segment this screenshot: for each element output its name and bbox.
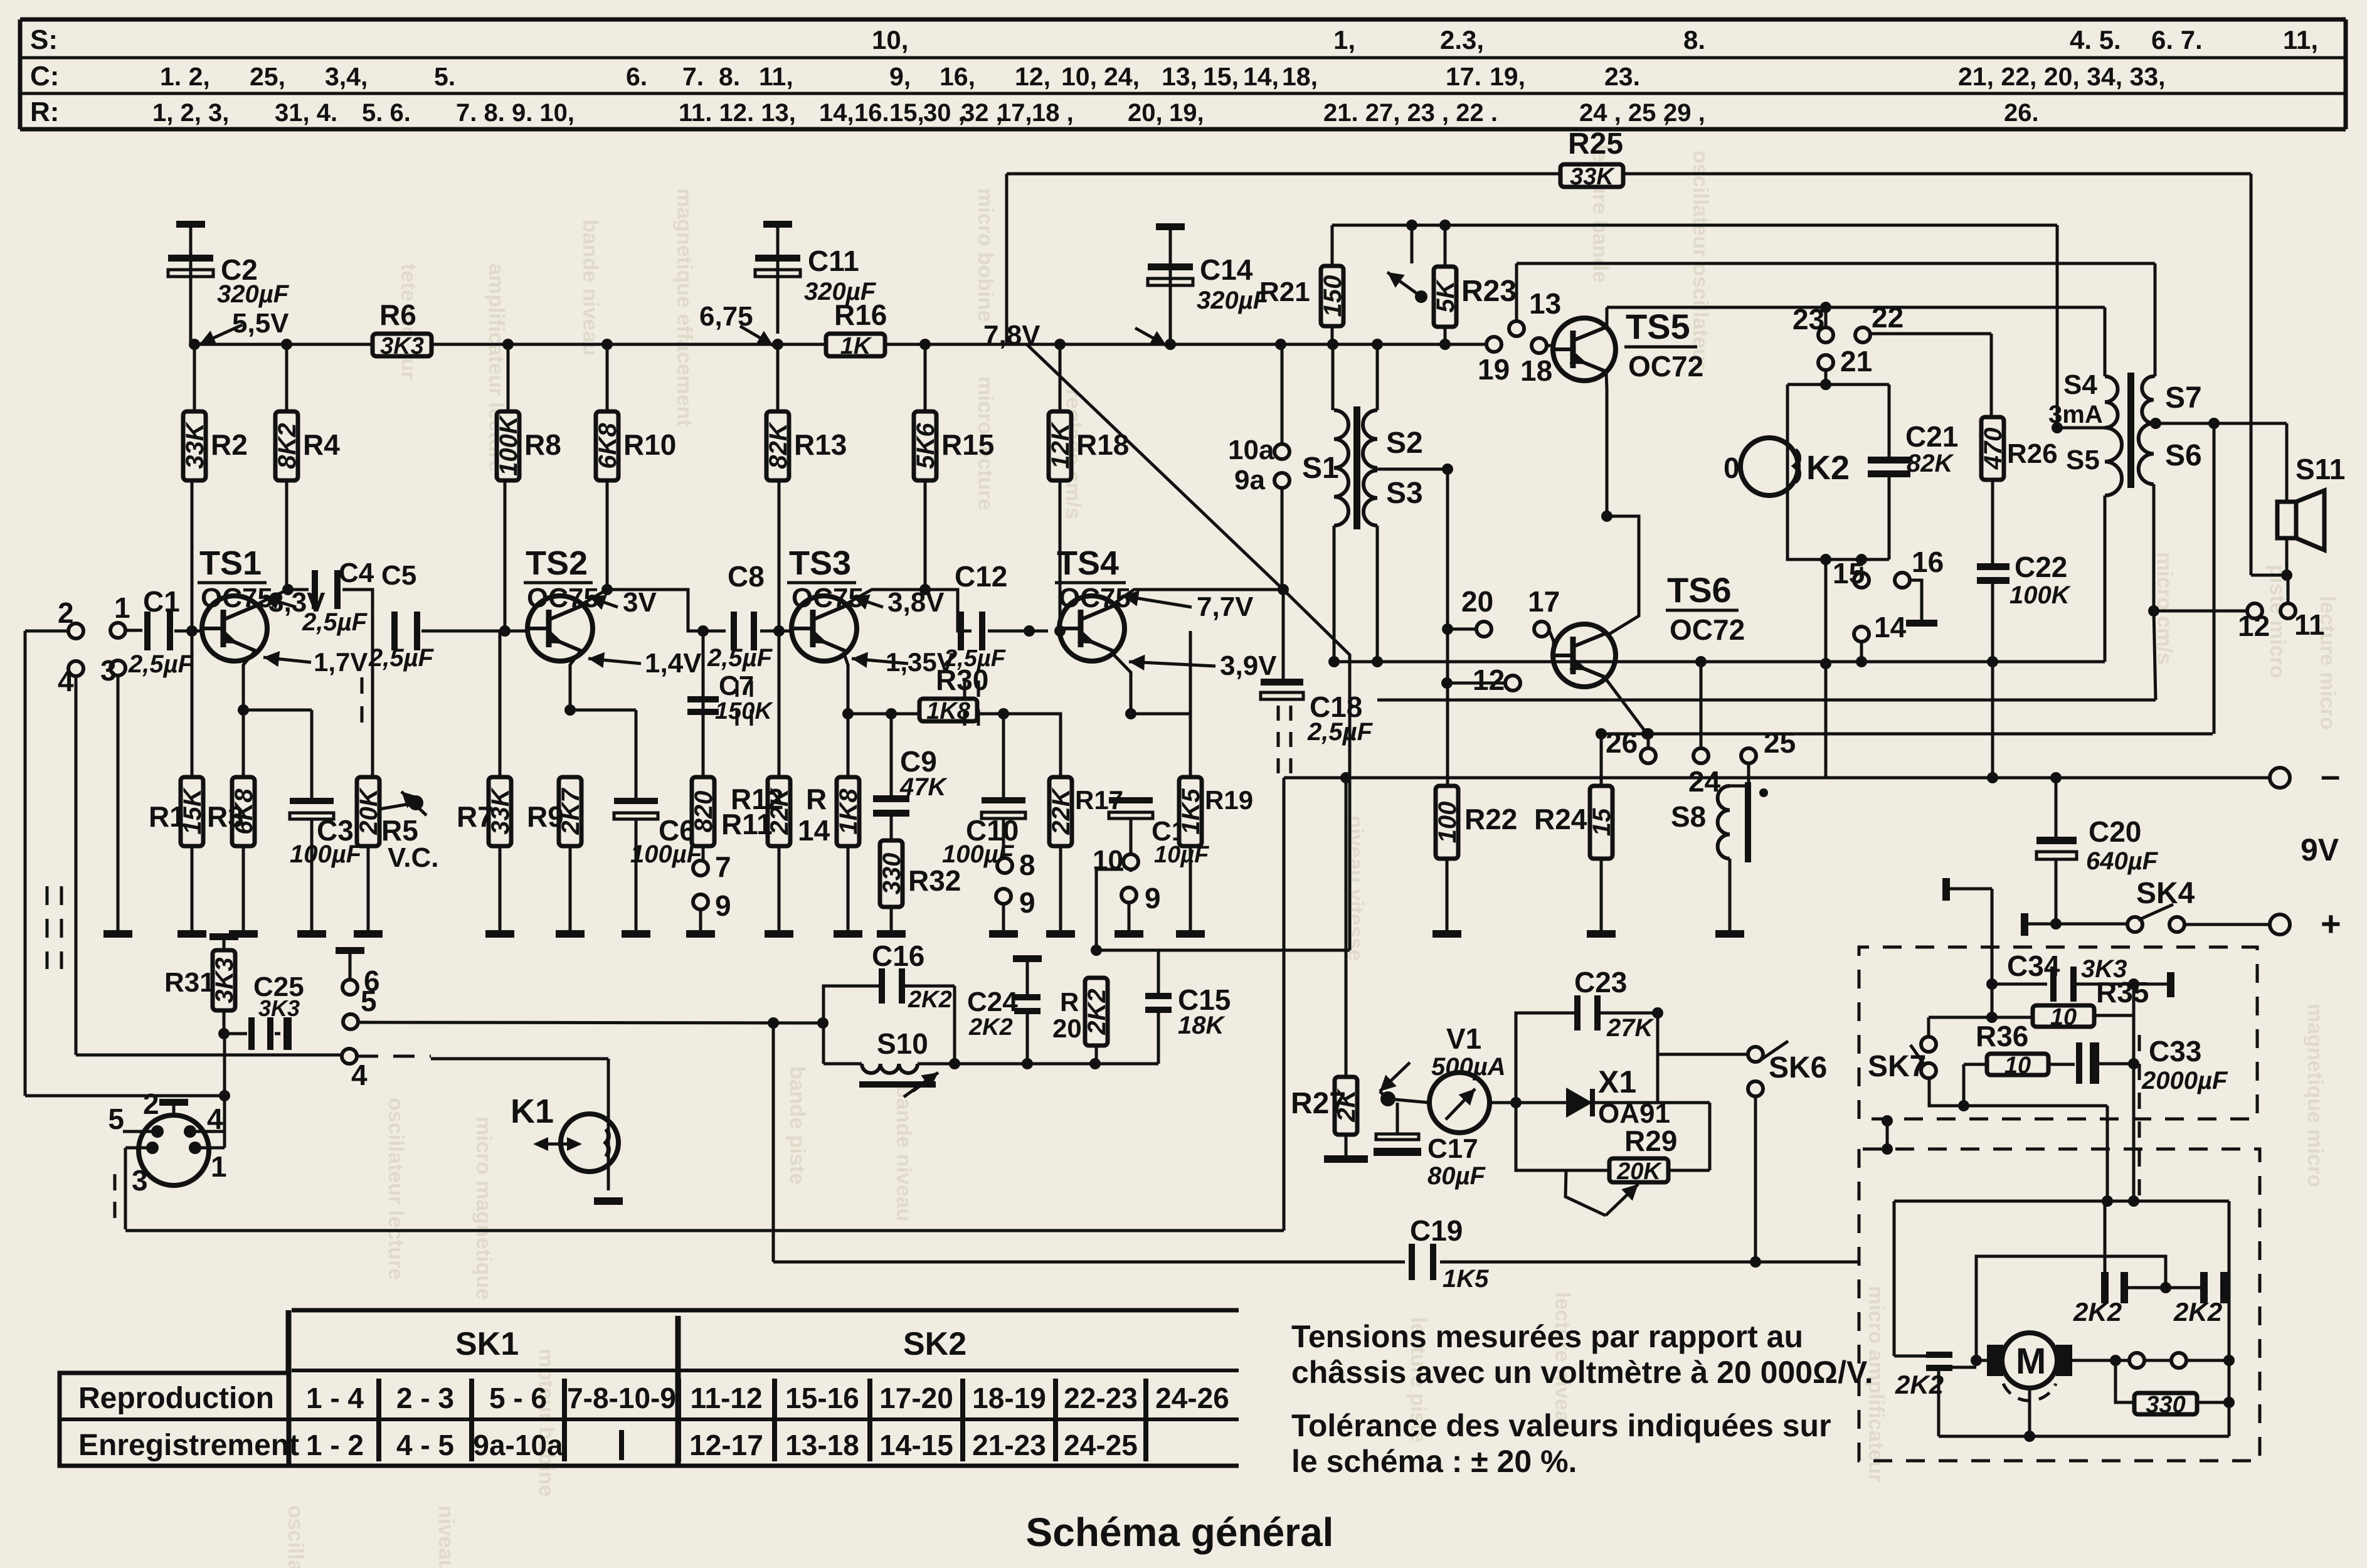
wire TS3 emitter [842, 652, 854, 719]
wire C34 bus down [0, 0, 1, 1]
svg-text:15: 15 [1588, 808, 1616, 836]
svg-text:V.C.: V.C. [388, 842, 439, 873]
wire TS5 emitter [1601, 373, 1612, 522]
svg-text:R19: R19 [1205, 785, 1253, 815]
svg-text:640µF: 640µF [2086, 847, 2159, 875]
capacitor 2K2 left of motor [1894, 1352, 1976, 1436]
svg-text:C34: C34 [2007, 950, 2060, 982]
wire rail to R6 [432, 343, 826, 346]
transistor TS5 [1553, 307, 1616, 381]
resistor R15 [912, 339, 994, 480]
svg-text:2,5µF: 2,5µF [368, 644, 435, 672]
svg-text:24: 24 [1688, 765, 1721, 798]
label TS1 [198, 544, 273, 613]
svg-text:14,: 14, [819, 99, 854, 127]
svg-text:K1: K1 [511, 1093, 554, 1130]
svg-text:17-20: 17-20 [879, 1382, 953, 1414]
record head K2 loop [1787, 379, 1889, 565]
top table C row numbers [160, 62, 2166, 91]
wire rail to 19 [1275, 339, 1486, 350]
svg-text:470: 470 [1979, 428, 2007, 470]
svg-text:R25: R25 [1568, 127, 1623, 161]
svg-text:1 - 2: 1 - 2 [306, 1429, 364, 1461]
terminal 25 [1741, 726, 1796, 786]
terminal 26 [1606, 726, 1656, 763]
diagonal C18 node down [1283, 590, 1350, 950]
primary S5 [2066, 428, 2122, 495]
wire S1 bottom down [1328, 526, 1340, 667]
wire rail to S1 top [1332, 344, 1335, 410]
svg-text:24-26: 24-26 [1155, 1382, 1229, 1414]
svg-text:R4: R4 [303, 428, 340, 461]
svg-text:le schéma : ± 20 %.: le schéma : ± 20 %. [1291, 1444, 1577, 1479]
motor bottom wire [1939, 1435, 2229, 1438]
record head K2 [1724, 438, 1850, 495]
R31 bus vertical [219, 1034, 230, 1148]
DIN label 3 [132, 1164, 148, 1197]
svg-text:14-15: 14-15 [879, 1429, 953, 1461]
voltage label 6,75 [699, 301, 773, 346]
switch table mid line [60, 1417, 1239, 1421]
svg-text:R: R [1060, 987, 1079, 1017]
resistor R17 [1047, 714, 1123, 930]
wire C4 to R5 top [342, 590, 373, 777]
resistor R21 [1259, 225, 1347, 344]
ground R12 [765, 930, 793, 938]
svg-text:16.: 16. [854, 99, 889, 127]
svg-text:R23: R23 [1461, 275, 1517, 308]
resistor 330 [2115, 1360, 2235, 1436]
capacitor C17 [1374, 1103, 1486, 1190]
resistor R31 [164, 933, 238, 1039]
wire S5 bottom return [2104, 495, 2107, 662]
label R11 under R12 [721, 808, 773, 840]
terminal 23 [1792, 302, 1833, 342]
svg-text:S10: S10 [877, 1027, 928, 1060]
capacitor C10 [942, 797, 1025, 868]
terminal 17 [1528, 585, 1560, 655]
resistor R32 [878, 840, 961, 930]
wire terminal4 down bus [76, 676, 342, 1055]
wire R30 to R17 top [977, 708, 1061, 797]
diode X1 [1516, 1064, 1670, 1129]
svg-text:30 ,: 30 , [923, 99, 965, 127]
minus rail [1284, 772, 2270, 783]
svg-text:C22: C22 [2015, 551, 2067, 583]
svg-text:100µF: 100µF [290, 840, 363, 868]
svg-text:S6: S6 [2165, 439, 2202, 472]
svg-text:18: 18 [1520, 354, 1552, 387]
svg-text:14,: 14, [1243, 62, 1279, 91]
svg-text:21-23: 21-23 [972, 1429, 1046, 1461]
svg-text:100: 100 [1434, 802, 1461, 844]
svg-text:C33: C33 [2149, 1035, 2201, 1067]
svg-text:1K8: 1K8 [835, 788, 862, 835]
switch table bottom line [60, 1464, 1239, 1468]
capacitor C9 [873, 714, 948, 840]
svg-text:5K6: 5K6 [912, 423, 940, 469]
svg-text:3: 3 [100, 654, 117, 687]
svg-text:12K: 12K [1047, 421, 1074, 469]
svg-text:S7: S7 [2165, 381, 2202, 415]
svg-text:16,: 16, [940, 62, 975, 91]
wire R11 top [688, 625, 709, 637]
top index table frame [20, 19, 2346, 129]
svg-text:2,5µF: 2,5µF [302, 608, 368, 636]
capacitor C34 [1986, 950, 2174, 1002]
svg-text:oscillateur lecture: oscillateur lecture [384, 1098, 408, 1280]
svg-text:+: + [2321, 904, 2341, 943]
svg-text:19,: 19, [1490, 62, 1525, 91]
terminal 19 [1478, 337, 1510, 386]
wire R12 top lead [778, 631, 781, 777]
svg-text:X1: X1 [1598, 1064, 1636, 1099]
resistor R7 [457, 631, 514, 930]
svg-text:4: 4 [207, 1103, 223, 1135]
wire TS4 emitter [1111, 652, 1136, 719]
svg-text:S2: S2 [1386, 426, 1423, 460]
svg-text:22: 22 [1872, 301, 1904, 334]
svg-text:2,5µF: 2,5µF [943, 645, 1007, 672]
terminal 7 [693, 850, 731, 883]
wire TS4 collector [1111, 590, 1283, 606]
svg-text:5 - 6: 5 - 6 [489, 1382, 547, 1414]
wire S3 bottom down [1372, 526, 1383, 667]
secondary S3 [1364, 470, 1423, 526]
resistor R12 [731, 777, 793, 930]
svg-text:18K: 18K [1178, 1012, 1226, 1039]
resistor R9 [527, 777, 585, 930]
capacitor C19 [1409, 1214, 1489, 1293]
svg-text:10,: 10, [1061, 62, 1097, 91]
svg-text:4. 5.: 4. 5. [2070, 25, 2121, 55]
wire terminal2 down-left bus [25, 631, 225, 1096]
svg-text:80µF: 80µF [1427, 1162, 1486, 1190]
capacitor C15 [1145, 983, 1231, 1064]
svg-text:23.: 23. [1604, 62, 1640, 91]
svg-text:7-8-10-9: 7-8-10-9 [567, 1382, 676, 1414]
wire K2 bottom to rail- [1820, 559, 1831, 778]
wire SK6 bottom [1750, 1096, 1761, 1268]
wire y359 rail [1332, 220, 2057, 231]
wire S2S3 tap [1377, 464, 1453, 475]
svg-text:1,7V: 1,7V [314, 647, 368, 677]
svg-text:R29: R29 [1624, 1125, 1677, 1157]
svg-text:2000µF: 2000µF [2141, 1067, 2228, 1094]
svg-text:26.: 26. [2004, 99, 2039, 127]
svg-text:1K5: 1K5 [1443, 1265, 1489, 1293]
svg-text:micro bobine: micro bobine [973, 188, 997, 322]
capacitor C1 [128, 585, 194, 678]
svg-text:320µF: 320µF [1197, 287, 1269, 314]
transistor TS1 [202, 596, 267, 661]
terminal 10a [1228, 344, 1289, 465]
ground R32 [877, 930, 906, 938]
svg-text:100K: 100K [2010, 581, 2072, 609]
capacitor C16 [872, 940, 952, 1013]
svg-text:25: 25 [1764, 726, 1796, 759]
svg-text:5.: 5. [434, 62, 455, 91]
svg-text:18,: 18, [1282, 62, 1318, 91]
svg-text:11: 11 [2294, 608, 2325, 641]
terminal 6 [336, 947, 380, 997]
svg-text:12-17: 12-17 [689, 1429, 763, 1461]
capacitor C7 [687, 670, 773, 724]
svg-text:R9: R9 [527, 800, 564, 833]
svg-text:R8: R8 [524, 428, 561, 461]
svg-text:17: 17 [1528, 585, 1560, 618]
potentiometer R5 volume [355, 777, 418, 930]
svg-text:R21: R21 [1259, 277, 1310, 307]
R27 wiper to V1 [1380, 1062, 1429, 1106]
resistor R10 [594, 339, 676, 480]
wire emitter row TS3 [848, 708, 919, 719]
svg-text:1: 1 [114, 591, 130, 624]
transformer core [1353, 406, 1360, 529]
svg-text:11-12: 11-12 [690, 1382, 762, 1414]
capacitor C4 [302, 558, 374, 636]
svg-text:7,7V: 7,7V [1197, 591, 1254, 622]
svg-text:R15: R15 [941, 428, 994, 461]
erase head K1 [561, 1114, 618, 1190]
svg-text:9V: 9V [2301, 832, 2339, 867]
secondary S2 [1363, 410, 1423, 468]
svg-text:R6: R6 [379, 299, 416, 331]
svg-text:TS6: TS6 [1667, 570, 1732, 610]
svg-text:21, 22, 20, 34, 33,: 21, 22, 20, 34, 33, [1958, 62, 2166, 91]
svg-text:S3: S3 [1386, 477, 1423, 510]
switch SK4 [2127, 877, 2195, 932]
terminal 15 [1833, 557, 1869, 590]
svg-text:R7: R7 [457, 800, 494, 833]
wire 5-line [358, 1017, 829, 1029]
wire tap down to emitter net [2213, 423, 2216, 734]
svg-text:Tensions mesurées par rappo: Tensions mesurées par rapport au [1291, 1319, 1803, 1354]
terminal 20 [1442, 585, 1493, 637]
wire C5 to TS2 base [421, 481, 527, 637]
svg-text:S1: S1 [1302, 452, 1339, 485]
svg-text:C1: C1 [143, 585, 180, 618]
svg-text:19,: 19, [1169, 99, 1204, 127]
top table R row numbers [152, 99, 2039, 127]
voltage 1,35V at TS3 [852, 647, 955, 677]
wire emitter row TS4 [1131, 714, 1190, 777]
svg-text:24-25: 24-25 [1064, 1429, 1138, 1461]
svg-text:4 - 5: 4 - 5 [396, 1429, 454, 1461]
svg-text:7: 7 [715, 850, 731, 883]
transistor TS6 [1553, 624, 1616, 687]
svg-text:C17: C17 [1427, 1133, 1478, 1164]
svg-text:S8: S8 [1671, 800, 1706, 833]
svg-text:32 ,: 32 , [961, 99, 1003, 127]
wire TS1 collector [253, 481, 309, 606]
transistor TS2 [527, 596, 593, 661]
governor contacts [2115, 1353, 2235, 1368]
svg-text:29 ,: 29 , [1663, 99, 1705, 127]
wire tap down R22 [1446, 469, 1449, 786]
ground K1 [594, 1197, 623, 1205]
scan bleed-through ghost text [283, 144, 2339, 1568]
R29 wiper [1565, 1170, 1638, 1216]
resistor R19 [1177, 631, 1253, 930]
terminal 12 left [1441, 664, 1520, 696]
switch table header [289, 1310, 1239, 1466]
svg-text:R36: R36 [1976, 1020, 2028, 1052]
switch SK7 [1868, 1037, 1936, 1083]
label TS6 [1666, 570, 1745, 646]
ground C13 [1115, 930, 1143, 938]
svg-text:Enregistrement: Enregistrement [78, 1429, 299, 1462]
wire down to C19 row [768, 1017, 779, 1262]
svg-text:magnetique micro: magnetique micro [2303, 1004, 2327, 1187]
svg-text:4: 4 [58, 665, 74, 697]
motor loop top [1894, 1195, 2229, 1360]
wire C12 to TS4 base [988, 481, 1066, 637]
svg-text:15: 15 [1833, 557, 1865, 590]
svg-text:2: 2 [143, 1088, 159, 1120]
svg-text:330: 330 [2146, 1392, 2185, 1418]
svg-text:R:: R: [30, 97, 59, 127]
svg-text:6K8: 6K8 [594, 423, 622, 469]
wire S6S7 tap [2150, 418, 2287, 429]
ground R22 [1432, 930, 1461, 938]
capacitor C18 [1261, 590, 1374, 746]
bottom long wire from DIN [125, 1229, 1284, 1232]
svg-text:2,5µF: 2,5µF [128, 650, 194, 678]
secondary S7 [2142, 263, 2201, 423]
output core [2127, 373, 2134, 488]
svg-text:3,4,: 3,4, [325, 62, 368, 91]
svg-text:R1: R1 [149, 800, 186, 833]
svg-text:9: 9 [1019, 886, 1035, 919]
wire R36 left down [1964, 1106, 2113, 1207]
svg-text:82K: 82K [1907, 450, 1954, 477]
svg-text:27K: 27K [1606, 1014, 1655, 1042]
wire R20 top to C15 [1096, 950, 1350, 993]
wire to K1 branch [601, 630, 604, 633]
svg-text:OC72: OC72 [1628, 350, 1703, 383]
resistor R2 [181, 344, 248, 480]
svg-text:TS5: TS5 [1626, 307, 1690, 346]
svg-text:C14: C14 [1200, 253, 1253, 286]
upper dashed box [1859, 947, 2257, 1119]
svg-text:magnetique effacement: magnetique effacement [672, 188, 696, 426]
svg-text:R24: R24 [1534, 803, 1587, 835]
svg-text:9: 9 [715, 889, 731, 922]
svg-text:7,8V: 7,8V [983, 320, 1041, 351]
node 7,8V junction [1165, 339, 1176, 350]
svg-text:R22: R22 [1464, 803, 1517, 835]
capacitor C20 [2036, 778, 2159, 924]
svg-text:150: 150 [1319, 275, 1347, 317]
ground R9 [556, 930, 585, 938]
tank circuit box C16/S10 [823, 986, 960, 1069]
svg-text:–: – [2321, 755, 2340, 795]
svg-text:11,: 11, [2283, 25, 2318, 55]
svg-text:5K: 5K [1432, 278, 1459, 312]
capacitor C21 [1868, 420, 1958, 477]
wire C8 to TS3 base [760, 481, 792, 637]
svg-text:150K: 150K [715, 698, 773, 724]
top table S row numbers [872, 25, 2318, 55]
ground C3 [297, 930, 326, 938]
svg-text:20: 20 [1052, 1014, 1082, 1043]
capacitor 2K2 mid [2073, 1201, 2171, 1327]
primary S4 [2048, 369, 2117, 428]
wire V1 to X1 node [1490, 1097, 1522, 1108]
capacitor C5 [368, 560, 435, 672]
svg-text:100K: 100K [495, 414, 522, 476]
capacitor C22 [1977, 551, 2072, 778]
wire S10 row left [0, 0, 1, 1]
terminal 4 [58, 661, 83, 697]
wire 23 line [1607, 307, 2105, 376]
terminal 9 under C10 [996, 886, 1035, 930]
svg-text:R35: R35 [2096, 976, 2149, 1009]
ground R3 [229, 930, 258, 938]
capacitor 2K2 right [2166, 1272, 2229, 1327]
capacitor C3 [290, 798, 363, 930]
motor bottom lead [2024, 1388, 2035, 1442]
transistor TS4 [1059, 596, 1125, 661]
long wire K2-bottom net [1334, 656, 2105, 667]
label TS2 [524, 544, 599, 613]
DIN pin 2 [143, 1088, 188, 1120]
resistor R27 [1291, 778, 1360, 1155]
svg-text:S5: S5 [2066, 445, 2100, 475]
svg-text:2K2: 2K2 [1083, 988, 1111, 1035]
svg-text:V1: V1 [1446, 1022, 1481, 1055]
loudspeaker S11 [2251, 423, 2345, 581]
svg-text:6. 7.: 6. 7. [2151, 25, 2203, 55]
svg-text:TS1: TS1 [199, 544, 262, 582]
capacitor C25 [225, 972, 304, 1050]
svg-text:19: 19 [1478, 353, 1510, 386]
switch table column dividers [379, 1379, 1146, 1461]
dashed C18 bottom [1278, 706, 1291, 776]
svg-text:8.: 8. [719, 62, 740, 91]
long wire TS6 emitter net [1601, 728, 2213, 739]
voltage 3,8V at TS3 [853, 587, 945, 618]
svg-text:10: 10 [2004, 1052, 2031, 1079]
dashed link into motor box [2138, 1035, 2141, 1199]
svg-text:2K2: 2K2 [908, 987, 952, 1013]
label K1 [511, 1093, 554, 1130]
resistor R16 [826, 299, 887, 359]
svg-text:C11: C11 [808, 245, 859, 277]
minus terminal [2270, 755, 2340, 795]
svg-text:14: 14 [798, 814, 830, 847]
svg-text:8: 8 [1019, 849, 1035, 881]
svg-text:Reproduction: Reproduction [78, 1382, 274, 1415]
diagonal rail to C18 node [1027, 344, 1289, 595]
svg-text:5. 6.: 5. 6. [362, 99, 411, 127]
svg-text:niveau magnetique: niveau magnetique [434, 1505, 458, 1568]
resistor R3 [207, 710, 258, 930]
terminal 10 [1093, 845, 1138, 876]
svg-text:20,: 20, [1128, 99, 1163, 127]
ground R14 [834, 930, 862, 938]
voltage label 5,5V [199, 308, 289, 345]
label SK2 [903, 1326, 966, 1362]
terminal 8 [997, 849, 1035, 881]
terminal 18 [1520, 338, 1554, 387]
wire TS1 emitter to R3/C3 [238, 652, 312, 798]
svg-text:C19: C19 [1410, 1214, 1463, 1247]
terminal 11 [2280, 575, 2325, 641]
svg-text:25,: 25, [250, 62, 285, 91]
svg-text:OC75: OC75 [201, 583, 273, 613]
